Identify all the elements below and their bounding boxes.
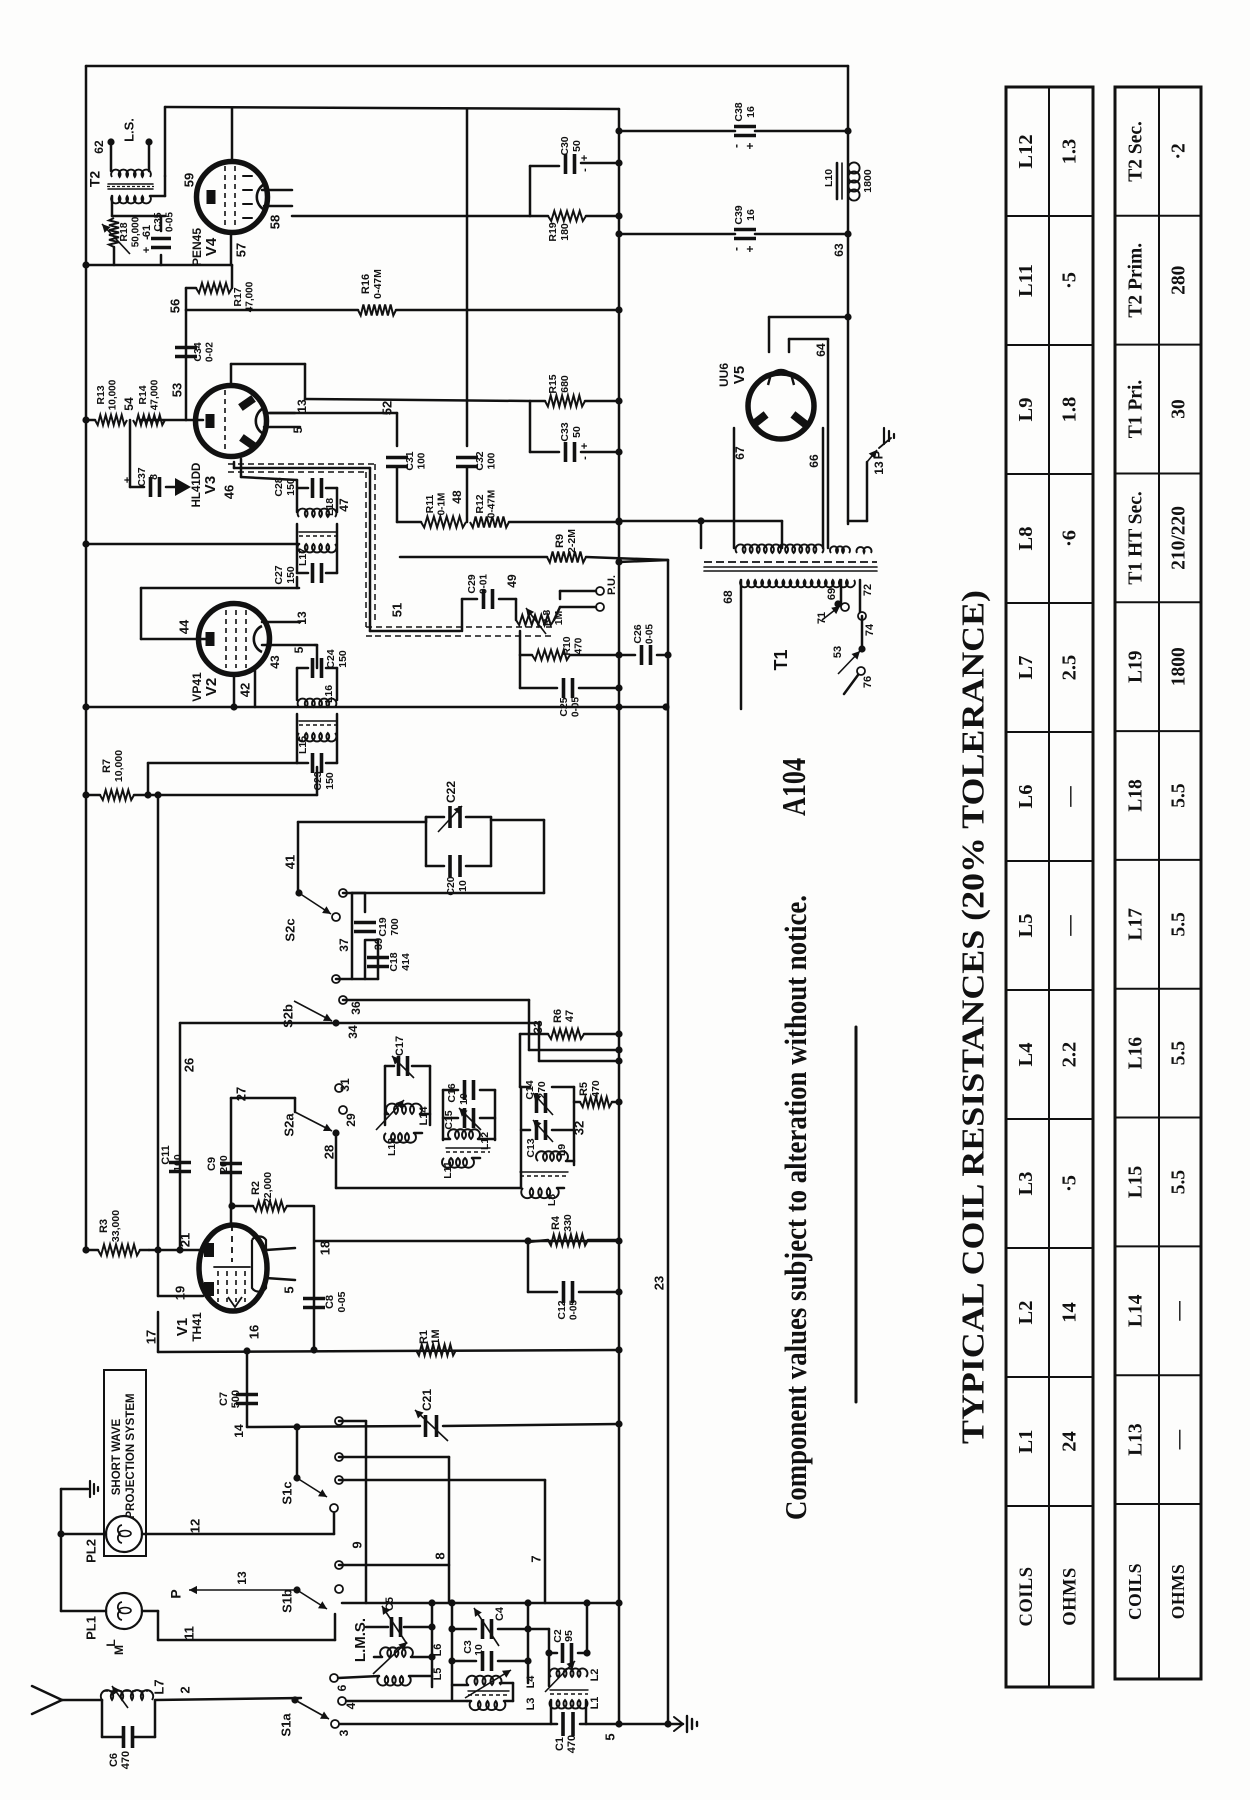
svg-text:L4: L4 bbox=[1015, 1043, 1037, 1067]
wire second rail bbox=[165, 107, 619, 176]
wire AVC rail (23) bbox=[651, 560, 668, 1723]
svg-text:R6: R6 bbox=[552, 1009, 564, 1023]
switch S1c bbox=[279, 1417, 343, 1505]
svg-text:S1b: S1b bbox=[279, 1589, 294, 1613]
capacitor C1 bbox=[554, 1712, 578, 1753]
wire 8 bbox=[339, 1457, 449, 1603]
svg-text:C25: C25 bbox=[558, 697, 570, 716]
svg-text:23: 23 bbox=[651, 1276, 666, 1290]
svg-text:·5: ·5 bbox=[1059, 272, 1081, 289]
svg-text:PL1: PL1 bbox=[83, 1616, 98, 1640]
capacitor C6 bbox=[102, 1700, 155, 1769]
svg-text:R3: R3 bbox=[98, 1219, 110, 1233]
capacitor C5 padder bbox=[366, 1597, 432, 1644]
svg-text:53: 53 bbox=[832, 646, 844, 658]
resistor R5 bbox=[574, 1080, 623, 1107]
svg-text:0-02: 0-02 bbox=[205, 342, 216, 362]
svg-text:10: 10 bbox=[457, 880, 469, 892]
svg-text:52: 52 bbox=[379, 401, 394, 415]
valve V3 HL41DD bbox=[191, 386, 266, 508]
svg-text:—: — bbox=[1059, 786, 1081, 808]
wire C21 line bbox=[247, 1420, 623, 1427]
coil L14 box bbox=[385, 1066, 430, 1125]
svg-text:L13: L13 bbox=[1125, 1423, 1146, 1456]
svg-text:R14: R14 bbox=[137, 385, 149, 404]
svg-text:36: 36 bbox=[349, 1001, 363, 1015]
svg-text:16: 16 bbox=[745, 209, 757, 221]
label component values notice bbox=[778, 895, 813, 1520]
svg-text:L4: L4 bbox=[525, 1675, 537, 1689]
wire box A right leg bbox=[428, 1603, 435, 1687]
transformer T1 secondary bbox=[736, 544, 872, 553]
resistor R16 bbox=[358, 269, 396, 316]
wire V1 grid leads bbox=[149, 1233, 203, 1300]
table coil resistances 1 bbox=[1006, 87, 1093, 1687]
svg-text:L6: L6 bbox=[432, 1644, 444, 1657]
svg-text:10,000: 10,000 bbox=[113, 750, 125, 782]
wire 56 bbox=[167, 299, 622, 314]
svg-text:L10: L10 bbox=[823, 169, 835, 187]
svg-text:270: 270 bbox=[536, 1081, 548, 1099]
svg-text:5.5: 5.5 bbox=[1168, 1170, 1189, 1195]
svg-text:+: + bbox=[743, 142, 757, 149]
svg-text:46: 46 bbox=[221, 485, 236, 499]
capacitor C14 bbox=[524, 1080, 553, 1115]
svg-text:V4: V4 bbox=[203, 237, 220, 256]
svg-text:59: 59 bbox=[181, 173, 196, 187]
wire coil bank bus bbox=[342, 1599, 623, 1606]
svg-text:R5: R5 bbox=[578, 1082, 590, 1096]
svg-text:5: 5 bbox=[291, 426, 305, 433]
svg-text:R7: R7 bbox=[101, 759, 113, 773]
label A104 bbox=[776, 758, 813, 816]
svg-text:S2a: S2a bbox=[281, 1113, 296, 1137]
svg-text:L1: L1 bbox=[1015, 1430, 1037, 1454]
switch S2a bbox=[281, 1078, 358, 1159]
svg-text:S1a: S1a bbox=[278, 1713, 293, 1737]
svg-text:414: 414 bbox=[400, 953, 412, 971]
svg-text:·6: ·6 bbox=[1059, 530, 1081, 547]
resistor R3 bbox=[82, 1210, 149, 1256]
resistor R11 bbox=[421, 490, 466, 527]
svg-text:C15: C15 bbox=[443, 1110, 455, 1129]
capacitor C29 bbox=[462, 574, 519, 631]
wire V4 leads bbox=[181, 109, 292, 229]
svg-text:50: 50 bbox=[571, 140, 583, 152]
capacitor C9 bbox=[206, 1155, 242, 1173]
wire HT centre tap bbox=[615, 517, 782, 548]
svg-text:L3: L3 bbox=[525, 1698, 537, 1711]
svg-text:R9: R9 bbox=[554, 534, 566, 548]
resistor R18 tone bbox=[102, 216, 165, 265]
svg-text:14: 14 bbox=[232, 1424, 246, 1438]
svg-text:C7: C7 bbox=[218, 1392, 230, 1406]
potentiometer R8 volume bbox=[516, 599, 565, 634]
svg-text:29: 29 bbox=[344, 1113, 358, 1127]
coil L7 aerial filter bbox=[101, 1679, 167, 1708]
table coil resistances 2 bbox=[1115, 87, 1201, 1679]
svg-text:10,000: 10,000 bbox=[108, 379, 119, 410]
svg-text:37: 37 bbox=[337, 938, 351, 952]
svg-text:S2c: S2c bbox=[282, 918, 297, 941]
switch S1a bbox=[278, 1696, 467, 1736]
svg-text:C13: C13 bbox=[525, 1138, 537, 1157]
svg-text:100: 100 bbox=[417, 452, 428, 469]
svg-text:0-05: 0-05 bbox=[165, 212, 176, 232]
svg-text:PROJECTION SYSTEM: PROJECTION SYSTEM bbox=[125, 1393, 137, 1518]
valve V2 VP41 bbox=[190, 604, 269, 702]
switch S2b bbox=[280, 975, 363, 1039]
coil L9 bbox=[536, 1121, 586, 1161]
svg-text:-: - bbox=[579, 456, 591, 460]
svg-text:C6: C6 bbox=[108, 1753, 120, 1767]
svg-text:R17: R17 bbox=[232, 287, 244, 306]
wire V2 screen leads bbox=[262, 611, 317, 669]
coil L3 bbox=[467, 1698, 537, 1711]
label L.M.S. bbox=[352, 1618, 369, 1662]
svg-text:47,000: 47,000 bbox=[245, 281, 256, 312]
svg-text:+: + bbox=[579, 155, 591, 161]
svg-text:C19: C19 bbox=[377, 917, 389, 936]
coil L14 bbox=[376, 1100, 430, 1130]
svg-text:48: 48 bbox=[450, 490, 464, 504]
wire 2 aerial lead bbox=[155, 1686, 301, 1700]
svg-text:2.5: 2.5 bbox=[1059, 655, 1081, 681]
svg-text:C12: C12 bbox=[556, 1300, 568, 1319]
svg-text:SHORT WAVE: SHORT WAVE bbox=[111, 1418, 123, 1495]
svg-text:41: 41 bbox=[282, 855, 297, 869]
rule under notice bbox=[855, 1027, 858, 1402]
svg-text:M: M bbox=[112, 1645, 126, 1655]
label pin 5 V1 bbox=[281, 1286, 296, 1293]
svg-text:R15: R15 bbox=[547, 374, 559, 393]
svg-text:-: - bbox=[729, 247, 743, 251]
svg-text:13: 13 bbox=[872, 461, 886, 475]
svg-text:C14: C14 bbox=[524, 1080, 536, 1099]
IF transformer L17/L18 (IFT1) bbox=[273, 477, 351, 588]
svg-text:0-1M: 0-1M bbox=[437, 493, 448, 516]
svg-text:V2: V2 bbox=[203, 678, 220, 696]
svg-text:0-05: 0-05 bbox=[336, 1291, 348, 1312]
svg-text:L9: L9 bbox=[556, 1144, 568, 1156]
svg-text:L5: L5 bbox=[1015, 914, 1037, 938]
svg-text:L.S.: L.S. bbox=[121, 118, 136, 142]
svg-text:+: + bbox=[122, 477, 134, 483]
capacitor C31 bbox=[386, 451, 428, 522]
wire IFT1 connections bbox=[221, 459, 297, 499]
coil L5 bbox=[377, 1668, 444, 1686]
wire S2c pivot to C22 bbox=[298, 822, 426, 893]
coil L12 box bbox=[443, 1090, 495, 1140]
svg-text:2.2: 2.2 bbox=[1059, 1042, 1081, 1068]
svg-text:C22: C22 bbox=[444, 781, 458, 803]
svg-text:1800: 1800 bbox=[1168, 647, 1189, 686]
resistor R15 bbox=[305, 374, 623, 406]
svg-text:470: 470 bbox=[566, 1735, 578, 1753]
svg-text:44: 44 bbox=[176, 619, 191, 634]
lamp PL1 bbox=[61, 1593, 158, 1655]
wire box B left leg bbox=[448, 1603, 455, 1700]
svg-text:P: P bbox=[168, 1589, 184, 1598]
wire rail link bbox=[615, 558, 668, 565]
svg-text:A104: A104 bbox=[776, 758, 813, 816]
svg-text:150: 150 bbox=[324, 772, 336, 790]
wire V3 anode box bbox=[231, 364, 305, 399]
svg-text:L8: L8 bbox=[1015, 527, 1037, 551]
wire lamp feed bbox=[57, 1489, 64, 1611]
dashed screen pickup bbox=[228, 464, 552, 636]
svg-text:L9: L9 bbox=[1015, 398, 1037, 422]
ground earth-bus arrow bbox=[674, 1716, 697, 1732]
svg-text:58: 58 bbox=[267, 215, 282, 229]
svg-text:L7: L7 bbox=[1015, 656, 1037, 680]
capacitor C39 smoothing bbox=[615, 205, 851, 252]
svg-text:·2: ·2 bbox=[1168, 143, 1189, 159]
choke L10 bbox=[823, 162, 874, 256]
wire T2 primary to rail bbox=[112, 176, 165, 216]
ground HT bbox=[879, 428, 894, 448]
svg-text:+: + bbox=[141, 247, 153, 253]
coil L12 bbox=[443, 1129, 495, 1150]
wire cathode bus rail bbox=[618, 109, 621, 1723]
svg-text:L16: L16 bbox=[323, 685, 335, 703]
svg-text:470: 470 bbox=[574, 637, 585, 654]
svg-text:L11: L11 bbox=[1015, 264, 1037, 297]
svg-text:17: 17 bbox=[143, 1330, 158, 1344]
svg-text:32: 32 bbox=[571, 1121, 586, 1135]
svg-text:C30: C30 bbox=[559, 136, 571, 155]
svg-text:L14: L14 bbox=[1125, 1294, 1146, 1327]
svg-text:0-01: 0-01 bbox=[479, 574, 490, 594]
svg-text:10: 10 bbox=[458, 1093, 470, 1105]
svg-text:69: 69 bbox=[826, 588, 838, 600]
wire chassis return rail bbox=[82, 703, 669, 710]
svg-text:1M: 1M bbox=[430, 1329, 442, 1344]
wire S1c feed from PL2 bbox=[330, 1504, 338, 1534]
wire 13 to P bbox=[168, 1571, 295, 1599]
svg-text:C31: C31 bbox=[404, 451, 416, 470]
capacitor C18 bbox=[336, 940, 412, 979]
svg-text:L16: L16 bbox=[1125, 1037, 1146, 1070]
svg-text:C34: C34 bbox=[192, 342, 204, 361]
svg-text:74: 74 bbox=[864, 623, 876, 636]
svg-text:0-47M: 0-47M bbox=[372, 269, 384, 299]
svg-text:L18: L18 bbox=[1125, 779, 1146, 812]
box short wave projection system bbox=[104, 1370, 146, 1556]
coil L13 bbox=[384, 1133, 422, 1156]
ground C37 triangle bbox=[175, 478, 191, 496]
svg-text:1800: 1800 bbox=[862, 169, 874, 193]
svg-text:R13: R13 bbox=[95, 385, 107, 404]
wire HT+ smoothed rail bbox=[847, 66, 850, 524]
transformer T1 core bbox=[704, 562, 877, 671]
svg-text:C24: C24 bbox=[325, 649, 337, 668]
svg-text:L7: L7 bbox=[151, 1679, 166, 1694]
svg-text:-: - bbox=[729, 144, 743, 148]
svg-text:47: 47 bbox=[564, 1010, 576, 1022]
svg-text:—: — bbox=[1168, 1429, 1189, 1450]
svg-text:L1: L1 bbox=[589, 1697, 601, 1710]
svg-text:L.M.S.: L.M.S. bbox=[352, 1618, 369, 1662]
svg-text:·5: ·5 bbox=[1059, 1175, 1081, 1192]
svg-text:10: 10 bbox=[473, 1644, 485, 1656]
svg-text:L3: L3 bbox=[1015, 1172, 1037, 1196]
svg-text:OHMS: OHMS bbox=[1060, 1567, 1080, 1626]
svg-text:COILS: COILS bbox=[1017, 1566, 1037, 1626]
svg-text:0-05: 0-05 bbox=[571, 697, 582, 717]
loudspeaker terminals L.S. bbox=[92, 118, 152, 171]
core L11/L12 bbox=[446, 1148, 490, 1152]
svg-text:L17: L17 bbox=[1125, 908, 1146, 941]
svg-text:5.5: 5.5 bbox=[1168, 912, 1189, 937]
svg-text:T2 Prim.: T2 Prim. bbox=[1125, 243, 1146, 318]
coil L8 bbox=[521, 1188, 564, 1206]
svg-text:1.3: 1.3 bbox=[1059, 139, 1081, 165]
coil L9 box bbox=[521, 1087, 574, 1188]
wire S2 bus b bbox=[180, 1023, 623, 1065]
wire S2c contact leads bbox=[337, 893, 352, 979]
svg-text:12: 12 bbox=[187, 1519, 202, 1533]
core L1/L2 bbox=[550, 1690, 588, 1694]
svg-text:L2: L2 bbox=[1015, 1301, 1037, 1325]
svg-text:51: 51 bbox=[389, 603, 404, 617]
svg-text:8: 8 bbox=[432, 1552, 447, 1559]
svg-text:56: 56 bbox=[167, 299, 182, 313]
svg-text:L5: L5 bbox=[432, 1668, 444, 1681]
resistor R9 bbox=[400, 529, 668, 563]
svg-text:50: 50 bbox=[571, 426, 583, 438]
capacitor C32 bbox=[456, 109, 498, 522]
resistor R19 bbox=[292, 211, 623, 242]
svg-text:+: + bbox=[579, 443, 591, 449]
svg-text:T2: T2 bbox=[87, 171, 103, 188]
wire shielded conductor bbox=[234, 462, 460, 631]
svg-text:470: 470 bbox=[590, 1080, 602, 1098]
svg-text:L12: L12 bbox=[1015, 134, 1037, 168]
capacitor C17 bbox=[392, 1036, 414, 1078]
wire V4 cathode bias bus bbox=[82, 243, 248, 269]
capacitor C16 bbox=[446, 1080, 474, 1105]
svg-text:33,000: 33,000 bbox=[110, 1210, 122, 1242]
resistor R4 bbox=[528, 1214, 619, 1245]
svg-text:63: 63 bbox=[832, 243, 846, 257]
label typical coil resistances heading bbox=[954, 590, 990, 1444]
switch S1b bbox=[279, 1561, 449, 1613]
svg-text:C4: C4 bbox=[494, 1606, 506, 1621]
svg-text:1.8: 1.8 bbox=[1059, 397, 1081, 423]
wire box C legs bbox=[545, 1603, 590, 1686]
svg-text:L19: L19 bbox=[1125, 650, 1146, 683]
svg-text:T1: T1 bbox=[771, 649, 791, 670]
svg-text:C29: C29 bbox=[466, 574, 478, 593]
svg-text:C33: C33 bbox=[559, 422, 571, 441]
switch S2c bbox=[282, 855, 347, 942]
svg-text:C5: C5 bbox=[384, 1597, 396, 1611]
svg-text:5: 5 bbox=[292, 646, 306, 653]
svg-text:OHMS: OHMS bbox=[1168, 1564, 1188, 1619]
svg-text:R11: R11 bbox=[424, 495, 436, 514]
wire V3 leads bbox=[264, 399, 309, 433]
wire 14 bbox=[143, 1312, 158, 1352]
svg-text:680: 680 bbox=[559, 375, 571, 393]
svg-text:R10: R10 bbox=[561, 636, 573, 655]
wire R11 R12 line bbox=[397, 518, 623, 525]
resistor R14 bbox=[133, 379, 165, 425]
svg-text:P.U.: P.U. bbox=[606, 575, 618, 595]
resistor R17 bbox=[186, 265, 256, 312]
svg-text:C11: C11 bbox=[160, 1145, 172, 1165]
svg-text:L15: L15 bbox=[297, 736, 309, 754]
svg-text:16: 16 bbox=[745, 106, 757, 118]
svg-text:76: 76 bbox=[862, 676, 874, 688]
svg-text:T1 HT Sec.: T1 HT Sec. bbox=[1125, 491, 1146, 584]
svg-text:P: P bbox=[870, 450, 885, 459]
svg-text:—: — bbox=[1059, 915, 1081, 937]
svg-text:T2 Sec.: T2 Sec. bbox=[1125, 121, 1146, 182]
wire V5 anode feeds bbox=[769, 313, 852, 548]
wire V2 grid 44 bbox=[141, 588, 299, 639]
IF transformer L15/L16 (IFT2) bbox=[297, 649, 349, 795]
wire V5 heater leads bbox=[733, 428, 823, 548]
svg-text:C17: C17 bbox=[394, 1036, 406, 1056]
svg-text:43: 43 bbox=[268, 655, 282, 669]
wire S2a to L8 bbox=[336, 1133, 521, 1188]
svg-text:2: 2 bbox=[177, 1686, 192, 1693]
svg-text:L11: L11 bbox=[442, 1161, 454, 1179]
svg-text:8: 8 bbox=[148, 474, 160, 480]
svg-text:C32: C32 bbox=[474, 451, 486, 470]
svg-text:26: 26 bbox=[181, 1058, 196, 1072]
resistor R2 bbox=[232, 1172, 314, 1350]
svg-text:100: 100 bbox=[487, 452, 498, 469]
capacitor C4 bbox=[452, 1606, 528, 1646]
svg-text:47,000: 47,000 bbox=[150, 379, 161, 410]
svg-text:5.5: 5.5 bbox=[1168, 1041, 1189, 1066]
svg-text:180: 180 bbox=[559, 223, 571, 241]
svg-text:R4: R4 bbox=[550, 1215, 562, 1230]
svg-text:150: 150 bbox=[337, 650, 349, 668]
svg-text:49: 49 bbox=[505, 574, 519, 588]
antenna bbox=[32, 1686, 102, 1714]
capacitor C26 bbox=[619, 624, 672, 665]
terminal 6 bbox=[330, 1674, 379, 1691]
capacitor C21 trimmer bbox=[415, 1389, 448, 1441]
wire S2 bus a bbox=[343, 1000, 623, 1054]
svg-text:R2: R2 bbox=[250, 1181, 262, 1195]
capacitor C38 smoothing bbox=[615, 102, 851, 149]
capacitor C8 bbox=[303, 1291, 348, 1312]
transformer T2 bbox=[87, 170, 154, 204]
svg-text:64: 64 bbox=[814, 343, 828, 357]
wire S1c pivot lead bbox=[293, 1423, 300, 1478]
wire P output bbox=[848, 450, 886, 521]
svg-text:72: 72 bbox=[862, 584, 874, 596]
svg-text:150: 150 bbox=[285, 566, 297, 584]
svg-text:R18: R18 bbox=[118, 222, 130, 241]
svg-text:4: 4 bbox=[344, 1702, 358, 1709]
wire V2 cathode 42 bbox=[234, 670, 255, 707]
svg-text:UU6: UU6 bbox=[717, 363, 731, 387]
svg-text:34: 34 bbox=[346, 1025, 360, 1039]
svg-text:9: 9 bbox=[349, 1541, 364, 1548]
svg-text:0-47M: 0-47M bbox=[487, 490, 498, 518]
wire screen feed bbox=[82, 540, 299, 547]
valve V4 PEN45 bbox=[190, 162, 267, 267]
ground lamp circuit bbox=[61, 1481, 98, 1497]
wire C22 to osc bbox=[352, 820, 544, 893]
coil L2 bbox=[545, 1661, 601, 1692]
svg-text:S1c: S1c bbox=[279, 1481, 294, 1504]
